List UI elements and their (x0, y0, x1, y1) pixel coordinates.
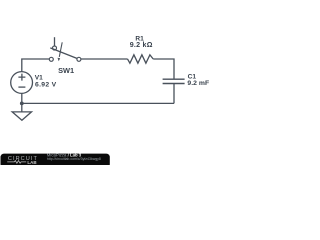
watermark logo CIRCUIT (8, 156, 38, 162)
value label 6.92 V (35, 81, 57, 88)
value label 9.2 mF (187, 80, 209, 87)
resistor R1 (128, 55, 154, 63)
wire: junction down to ground (21, 103, 23, 112)
label SW1 (58, 66, 74, 75)
wire: SW1 right pole to R1 left lead (81, 58, 128, 60)
wire: V1 plus terminal up and right to SW1 left throw (22, 59, 50, 72)
value label 9.2 kOhm (130, 41, 153, 49)
ground (12, 112, 31, 120)
svg-text:http://circuitlab.com/c/3yfz43: http://circuitlab.com/c/3yfz43kwgy8 (47, 157, 101, 161)
wire: V1 minus terminal down to bottom rail (21, 94, 23, 104)
svg-text:9.2 kΩ: 9.2 kΩ (130, 41, 153, 49)
svg-text:6.92 V: 6.92 V (35, 81, 57, 88)
wire: bottom rail (22, 102, 174, 104)
junction node at V1 / ground / bottom rail (20, 102, 24, 106)
watermark logo LAB (27, 160, 37, 165)
label R1 (135, 36, 144, 43)
label C1 (188, 74, 197, 81)
wire: C1 bottom plate down to bottom rail (173, 84, 175, 104)
watermark logo wire with resistor squiggle (7, 161, 26, 164)
wire: R1 right lead to top-right corner down to C1 top plate (153, 59, 174, 79)
svg-text:9.2 mF: 9.2 mF (187, 80, 209, 87)
watermark title MicaPizza / Lab 3 (47, 153, 82, 158)
switch SW1 (49, 37, 81, 61)
label V1 (35, 75, 43, 82)
capacitor C1 (163, 79, 185, 83)
svg-text:LAB: LAB (27, 160, 37, 165)
voltage source V1 (11, 72, 33, 94)
watermark url (47, 157, 101, 161)
watermark badge (1, 154, 110, 168)
svg-text:SW1: SW1 (58, 66, 74, 75)
